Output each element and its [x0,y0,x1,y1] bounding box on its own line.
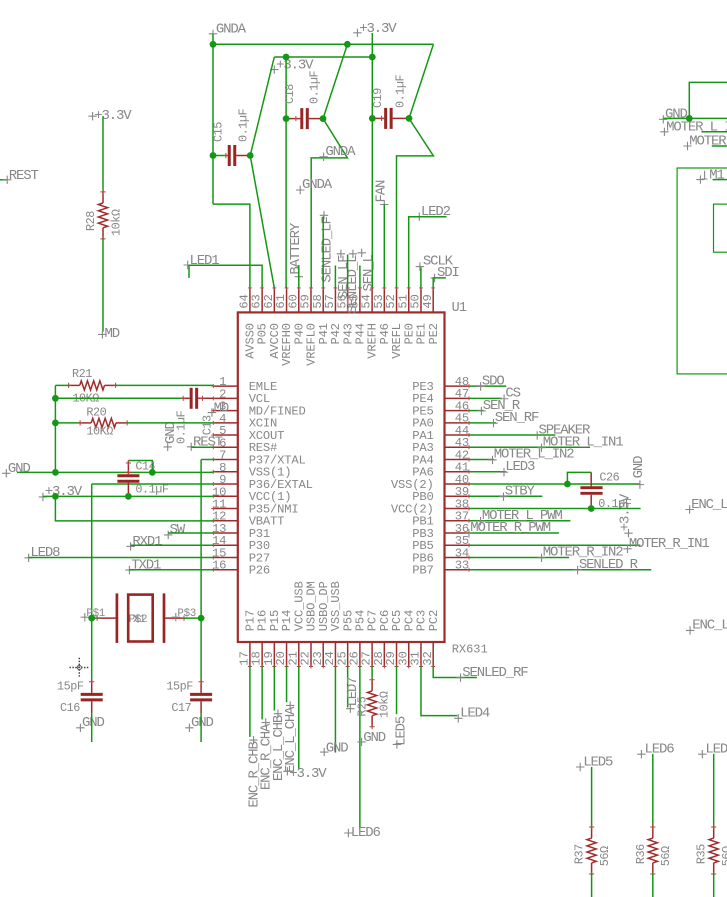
wire +3.3V horizontal line2 [274,56,372,58]
svg-text:C15: C15 [211,122,225,142]
net LED5 label pin29 [393,740,401,748]
pin 29 PC5 [396,642,398,667]
wire pin 41 right [469,471,506,473]
svg-text:U1: U1 [452,301,467,316]
resistor R20 10KOhm pin4 [80,422,91,424]
svg-text:C18: C18 [283,84,297,104]
capacitor C26 0.1uF [590,472,592,486]
wire pin 25 down [347,667,349,708]
wire pin 42 right [469,459,494,461]
svg-text:PE2: PE2 [427,323,441,344]
node junction rail-GND row [52,469,59,476]
wire R37 tail [591,874,593,897]
wire crystal P$3 lead [184,617,201,619]
wire pin 48 right [469,385,506,387]
node junction C15 left [210,152,217,159]
wire rail to R20 [55,422,80,424]
wire pin 46 right [469,410,484,412]
net SENLED_RF label [456,674,464,682]
svg-text:REST: REST [9,168,39,184]
net MOTER_R_IN2 label [537,554,545,562]
pin 36 PB3 [445,532,470,534]
net MOTER_R_PWM label [465,529,473,537]
net +3.3V label vertical right [624,529,632,537]
wire LED2 to pin 51 [409,217,447,288]
wire pin 45 right [469,422,496,424]
svg-text:16: 16 [212,559,226,573]
svg-text:56Ω: 56Ω [598,846,612,866]
pin 9 P36/EXTAL [213,483,238,485]
capacitor C18 0.1uF [286,118,300,120]
wire pin 7 down to crystal P$3 [200,460,202,619]
resistor R37 56Ohm [591,827,593,838]
node junction pin40-C26 [564,481,571,488]
svg-text:SDI: SDI [437,265,459,281]
net SEN_RF label [489,419,497,427]
pin 4 XCIN [213,422,238,424]
wire GNDA horizontal line1 [213,43,433,45]
wire pin 39 right [469,495,542,497]
wire diagonal line2 to C15 right [250,57,274,156]
wire diagonal line1 to C18 right [323,44,347,118]
wire pin 18 down [261,667,263,720]
net GND label top right [659,115,667,123]
svg-text:LED1: LED1 [705,742,727,758]
svg-text:10kΩ: 10kΩ [377,691,391,718]
pin 46 PE5 [445,410,470,412]
pin 49 PE2 [432,288,434,313]
capacitor C14 0.1uF [128,461,152,473]
node junction rail-C13 [52,395,59,402]
svg-text:R25: R25 [355,696,369,716]
resistor R28 10kOhm [102,192,104,203]
pin 40 VSS(2) [445,483,470,485]
net SENLED_LF label [320,211,328,219]
pin 55 P44 [359,288,361,313]
wire crystal P$1 lead [92,617,97,619]
svg-text:FAN: FAN [373,180,389,203]
svg-text:RXD1: RXD1 [132,534,162,550]
wire C16 to GND [91,713,93,742]
svg-text:LED2: LED2 [421,204,451,220]
wire SENLED_LF to pin 58 [322,216,324,288]
node junction line2 pin61 wire [283,54,290,61]
svg-text:MOTER_R_PWM: MOTER_R_PWM [470,520,551,536]
crystal X1 body [97,617,116,619]
pin 19 P15 [273,642,275,667]
svg-text:R28: R28 [84,211,98,231]
wire +3.3V drop to VBATT row [55,496,213,521]
svg-text:P26: P26 [249,564,270,578]
net SPEAKER label [533,431,541,439]
net GND label below C17 [185,724,193,732]
pin 37 PB1 [445,520,470,522]
svg-text:C14: C14 [135,460,155,474]
svg-text:LED4: LED4 [460,706,490,722]
wire RXD1 to pin 14 [131,544,214,546]
net SDO label [476,382,484,390]
pin 35 PB5 [445,544,470,546]
pin 42 PA4 [445,459,470,461]
pin 38 VCC(2) [445,508,470,510]
wire LED8 to pin 15 [29,557,214,559]
wire TXD1 to pin 16 [129,569,213,571]
net BATTERY label [295,273,303,281]
node junction pin38-C26 [588,505,595,512]
svg-text:GND: GND [191,715,214,731]
pin 21 VCC_USB [298,642,300,667]
svg-text:LED6: LED6 [645,742,675,758]
wire pin 26 P54 down long [359,667,361,829]
node junction line2 +3.3V wire [369,54,376,61]
net ENC_R_CHB label [249,736,257,744]
pin 59 VREFL0 [310,288,312,313]
wire SEN_L to pin 55 [359,266,361,288]
net GND label pin8 row [2,469,10,477]
capacitor C13 0.1uF pin2 [182,397,190,399]
net P$1 label [81,613,89,621]
svg-text:32: 32 [421,651,435,665]
resistor R36 56Ohm [652,827,654,838]
svg-text:SENLED_LF: SENLED_LF [320,217,336,283]
wire pin 47 right [469,397,502,399]
net LED6 label bottom right [637,750,645,758]
wire pin 61 VREFH0 vertical [285,57,287,288]
node junction C18 right [320,115,327,122]
svg-text:R21: R21 [72,367,92,381]
wire pin 32 to SENLED_RF [433,667,477,678]
pin 31 PC3 [420,642,422,667]
svg-text:LED6: LED6 [351,825,381,841]
pin 18 P16 [261,642,263,667]
svg-text:M1: M1 [709,167,724,183]
svg-text:GNDA: GNDA [302,177,333,193]
pin 33 PB7 [445,569,470,571]
svg-text:+3.3V: +3.3V [289,766,327,782]
svg-text:MOTER_R_IN1: MOTER_R_IN1 [629,536,710,552]
pin 11 P35/NMI [213,508,238,510]
pin 32 PC2 [432,642,434,667]
svg-text:R35: R35 [695,844,709,864]
pin 34 PB6 [445,556,470,558]
net LED5 label bottom right [576,763,584,771]
svg-text:MOTER_R_IN: MOTER_R_IN [689,134,727,150]
pin 58 P41 [322,288,324,313]
wire MOTER_L_IN right [701,131,727,133]
node junction +3.3V rail drop [52,493,59,500]
pin 3 MD/FINED [213,410,238,412]
net SEN_L label [358,249,366,257]
cursor crosshair [70,658,90,677]
svg-text:LED1: LED1 [190,253,220,269]
node junction crystal P$3 [198,615,205,622]
wire SW to pin 13 [168,532,213,534]
module M1 inner box [714,204,727,252]
svg-text:SEN_RF: SEN_RF [495,410,539,426]
svg-text:LED5: LED5 [583,754,613,770]
svg-text:PC2: PC2 [427,610,441,631]
wire pin 34 right [469,556,569,558]
wire pin 44 right [469,434,555,436]
svg-text:PB7: PB7 [412,564,433,578]
net MOTER_L_PWM label [476,517,484,525]
svg-text:15pF: 15pF [166,679,193,693]
wire FAN to pin 53 [383,205,385,288]
net SEN_LF label [337,250,345,258]
net LED1 label bottom right [698,750,706,758]
wire LED1 to pin 63 [189,265,262,288]
svg-text:+3.3V: +3.3V [618,493,634,531]
pin 14 P30 [213,544,238,546]
net GND label pin24 [320,748,328,756]
svg-text:+3.3V: +3.3V [359,21,397,37]
wire R21 left to rail [55,384,69,386]
wire pin 29 down [396,667,398,715]
net TXD1 label pin16 [125,566,133,574]
net LED2 label [415,213,423,221]
svg-text:ENC_L_C: ENC_L_C [691,497,727,513]
wire pin 36 right [469,532,559,534]
wire LED1 stub down [188,265,190,278]
pin 25 P55 [347,642,349,667]
net STBY label [499,492,507,500]
svg-text:15pF: 15pF [57,679,84,693]
node junction GND right [686,115,693,122]
pin 2 VCL [213,397,238,399]
pin 16 P26 [213,569,238,571]
wire +3.3V row to pin 10 VCC1 [43,495,213,497]
net +3.3V label pin21 [283,767,291,775]
svg-text:R37: R37 [573,844,587,864]
wire REST to pin 6 [191,446,213,448]
wire +3.3V to R28 [102,116,104,192]
pin 39 PB0 [445,495,470,497]
pin 50 PE1 [420,288,422,313]
pin 5 XCOUT [213,434,238,436]
wire pin 21 VCC_USB down [298,667,300,769]
pin 56 P43 [347,288,349,313]
svg-text:0.1µF: 0.1µF [135,483,169,497]
svg-text:TXD1: TXD1 [131,558,161,574]
svg-text:56Ω: 56Ω [720,846,727,866]
wire SDI to pin 49 [433,278,446,288]
wire GNDA vertical [212,34,214,204]
wire left rail vertical [54,385,56,472]
svg-text:LED3: LED3 [505,459,535,475]
svg-text:10KΩ: 10KΩ [86,425,113,439]
wire pin 24 VSS_USB down [334,667,336,753]
wire LED5 down [591,767,593,828]
net RXD1 label pin14 [126,542,134,550]
pin 10 VCC(1) [213,495,238,497]
capacitor C16 15pF [91,679,93,693]
capacitor C17 15pF [200,679,202,693]
wire C26 top jog [567,472,591,484]
wire BATTERY to pin 60 [298,265,300,288]
svg-text:LED8: LED8 [30,545,60,561]
IC U1 RX631 body [238,312,445,642]
wire pin 43 right [469,446,590,448]
wire diagonal line1 end to C19 right [409,44,433,118]
node junction C18 left [283,115,290,122]
pin 1 EMLE [213,385,238,387]
svg-text:GND: GND [8,461,31,477]
node junction crystal P$1 [88,615,95,622]
net LED3 label [500,468,508,476]
svg-text:33: 33 [455,559,469,573]
wire SENLED_L to pin 56 [347,255,349,288]
svg-text:R36: R36 [634,844,648,864]
svg-text:RX631: RX631 [452,642,488,656]
net GNDA label top [209,30,217,38]
net SENLED_L label [349,250,357,258]
svg-text:C13: C13 [200,415,214,435]
net SEN_R label [477,407,485,415]
svg-text:SDO: SDO [482,373,505,389]
svg-text:0.1µF: 0.1µF [394,74,408,108]
net GNDA label 2 [319,153,327,161]
net ENC_L_CHA label [286,701,294,709]
svg-text:GND: GND [326,740,349,756]
svg-text:10kΩ: 10kΩ [110,209,124,236]
svg-text:SEN_L: SEN_L [361,254,377,291]
net LED6 label pin26 [344,829,352,837]
wire LED1 down [713,754,715,828]
svg-text:0.1µF: 0.1µF [237,108,251,142]
pin 23 USBO_DP [322,642,324,667]
wire pin 35 long right [469,544,640,546]
pin 7 P37/XTAL [213,459,238,461]
net SENLED_R label [573,566,581,574]
wire pin 31 to LED4 [421,667,457,716]
svg-text:X1: X1 [133,614,145,626]
wire GND net top right [689,82,727,118]
wire pin 27 to R25 [371,667,373,680]
svg-text:+3.3V: +3.3V [45,484,83,500]
node junction line1-C18 [344,41,351,48]
wire pin 54 +3.3V vertical through C19 [371,57,373,288]
pin 26 P54 [359,642,361,667]
wire R28 to MD [102,238,104,331]
pin 24 VSS_USB [334,642,336,667]
svg-text:BATTERY: BATTERY [288,222,304,275]
node junction GNDA-line1 [210,41,217,48]
pin 45 PA0 [445,422,470,424]
svg-text:SW: SW [170,522,186,538]
wire pin 38 VCC2 to +3.3V [469,508,641,510]
pin 47 PE4 [445,397,470,399]
svg-text:LED5: LED5 [393,716,409,746]
pin 61 VREFH0 [286,288,288,313]
wire P$1 down to C16 [91,618,93,679]
net GND label right of C26 [636,480,644,488]
pin 41 PA6 [445,471,470,473]
capacitor C15 0.1uF [213,155,226,157]
pin 30 PC4 [408,642,410,667]
wire pin 17 down [249,667,251,737]
svg-text:ENC_L_CHA: ENC_L_CHA [283,706,299,773]
svg-text:MD: MD [105,326,120,342]
net GND label vertical near C13 [164,443,172,451]
net SDI label [430,274,438,282]
pin 60 P40 [298,288,300,313]
net +3.3V label pin10 row [39,493,47,501]
wire LED6 down [652,754,654,828]
node junction C14 bottom VCC1 [125,493,132,500]
pin 53 P46 [383,288,385,313]
pin 22 USBO_DM [310,642,312,667]
wire +3.3V label to line2 [371,33,373,57]
resistor R35 56Ohm [713,827,715,838]
svg-text:C26: C26 [599,471,619,485]
wire pin 9 down to crystal P$1 [91,484,93,618]
wire pin 37 right [469,520,570,522]
capacitor C19 0.1uF [372,117,384,119]
pin 57 P42 [334,288,336,313]
net +3.3V label top [353,29,361,37]
pin 64 AVSS0 [249,288,251,313]
net GND label below R25 [357,738,365,746]
resistor R25 10kOhm [371,680,373,691]
net MOTER_R_IN1 label [623,545,631,553]
net REST label left [0,179,7,181]
wire pin 19 down [273,667,275,711]
pin 54 VREFH [371,288,373,313]
pin 44 PA1 [445,434,470,436]
resistor R21 10KOhm pin1 [69,384,80,386]
module M1 box [677,168,727,374]
pin 15 P27 [213,556,238,558]
net GNDA label 3 [296,186,304,194]
net ENC_R_CHA label [262,718,270,726]
net LED7 label pin25 [346,705,354,713]
svg-text:GND: GND [363,730,386,746]
pin 63 P05 [261,288,263,313]
svg-text:0.1µF: 0.1µF [308,70,322,104]
pin 62 AVCC0 [273,288,275,313]
wire pin 33 right [469,569,651,571]
pin 8 VSS(1) [213,471,238,473]
node junction rail-R20 [52,420,59,427]
svg-text:GNDA: GNDA [216,22,247,38]
pin 12 VBATT [213,520,238,522]
net REST label pin6 [187,443,195,451]
wire M1 pin line [713,179,727,181]
svg-text:GND: GND [82,715,105,731]
wire pin 7 P37/XTAL row [201,459,213,461]
pin 43 PA3 [445,446,470,448]
net MD label pin3 [208,408,216,416]
net MOTER_R_IN label right edge [683,142,691,150]
wire rail to C13 [55,397,181,399]
svg-text:GND: GND [631,456,647,479]
wire R21 to pin 1 EMLE [115,384,213,386]
node junction C19 right [406,115,413,122]
pin 28 PC6 [383,642,385,667]
svg-text:56Ω: 56Ω [659,846,673,866]
pin 52 VREFL [396,288,398,313]
node junction C14 jog [149,469,156,476]
svg-text:STBY: STBY [505,483,536,499]
wire pin 9 P36/EXTAL row [92,483,214,485]
net SW label pin13 [164,531,172,539]
net MOTER_L_IN1 label [537,444,545,452]
net +3.3V label above R28 [88,112,96,120]
svg-text:C17: C17 [171,701,191,715]
net SCLK label [416,262,424,270]
svg-text:GNDA: GNDA [325,144,356,160]
net M1 label [702,171,708,179]
